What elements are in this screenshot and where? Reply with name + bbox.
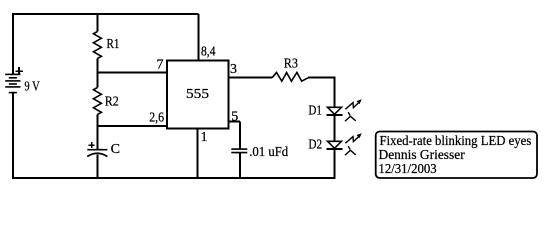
capacitor C curved bottom plate	[87, 153, 107, 156]
svg-text:R2: R2	[105, 95, 119, 110]
wire R1 top lead from rail	[96, 13, 98, 32]
wire left vertical (battery bottom lead)	[12, 93, 14, 180]
LED D1 triangle	[328, 107, 342, 114]
svg-text:1: 1	[201, 130, 208, 145]
LED D1 cathode bar	[327, 114, 343, 116]
svg-text:12/31/2003: 12/31/2003	[379, 162, 437, 177]
wire right vertical down to D1	[334, 76, 336, 107]
wire pin 5 vertical to .01uFd cap	[239, 122, 241, 150]
battery B1 9V plates	[5, 74, 20, 92]
resistor R3	[272, 73, 308, 82]
svg-text:9 V: 9 V	[24, 80, 39, 95]
wire .01uFd cap bottom lead	[239, 153, 241, 178]
svg-text:.01 uFd: .01 uFd	[249, 145, 288, 160]
resistor R1	[93, 32, 101, 59]
capacitor C (polarized) top plate	[87, 149, 107, 151]
LED D1 arrowhead	[357, 99, 362, 104]
wire top rail	[13, 13, 199, 15]
capacitor C2 .01 uFd plates	[231, 149, 247, 153]
wire R3 to right corner	[308, 76, 335, 78]
capacitor C plus sign	[89, 142, 95, 148]
LED D2 second arrow (stem and open head)	[345, 146, 356, 155]
svg-text:2,6: 2,6	[149, 111, 164, 126]
wire R1-R2 junction segment	[96, 59, 98, 88]
svg-text:C: C	[111, 142, 120, 157]
wire pin 7 horizontal	[97, 72, 167, 74]
title box rounded rect	[376, 132, 537, 179]
svg-text:7: 7	[157, 58, 164, 73]
svg-text:Fixed-rate blinking LED eyes: Fixed-rate blinking LED eyes	[380, 134, 532, 149]
svg-text:R3: R3	[284, 57, 298, 72]
wire D1 to D2	[334, 115, 336, 142]
LED D2 light arrow (zigzag with head)	[345, 136, 359, 143]
svg-text:Dennis Griesser: Dennis Griesser	[379, 148, 466, 163]
resistor R2	[93, 88, 101, 115]
wire pin 2,6 horizontal	[97, 125, 167, 127]
LED D2 arrowhead	[357, 133, 362, 138]
wire pin 8,4 vertical from top rail	[198, 14, 200, 61]
LED D1 second arrow (stem and open head)	[345, 112, 356, 121]
wire R2 bottom to capacitor C	[96, 115, 98, 151]
svg-text:8,4: 8,4	[201, 45, 216, 60]
LED D2 triangle	[328, 141, 342, 148]
svg-text:555: 555	[186, 87, 209, 102]
wire left vertical (battery top lead)	[12, 13, 14, 75]
svg-text:5: 5	[231, 110, 238, 125]
svg-text:3: 3	[230, 62, 237, 77]
op-amp box: 555 timer U1	[167, 61, 228, 129]
svg-text:D2: D2	[308, 138, 322, 153]
LED D1 light arrow (zigzag with head)	[345, 102, 359, 109]
battery plus sign	[15, 67, 22, 75]
LED D2 cathode bar	[327, 148, 343, 150]
wire bottom rail (ground return)	[12, 177, 336, 179]
wire D2 to bottom rail	[334, 149, 336, 178]
wire pin 1 vertical to bottom rail	[196, 129, 198, 179]
wire pin 5 horizontal	[228, 121, 240, 123]
svg-text:D1: D1	[308, 104, 322, 119]
svg-text:R1: R1	[107, 37, 120, 52]
wire pin 3 horizontal to R3	[228, 76, 272, 78]
wire capacitor C bottom lead	[96, 155, 98, 179]
